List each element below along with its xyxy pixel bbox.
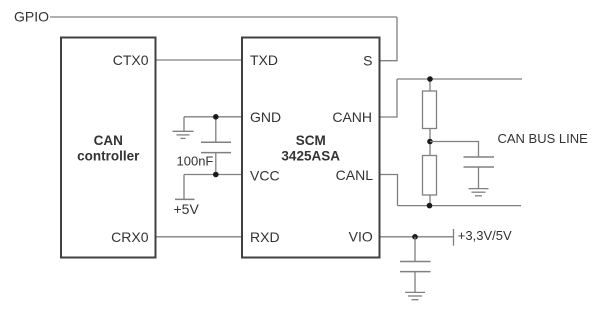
svg-text:CRX0: CRX0 <box>111 229 149 245</box>
wire CTX0 to TXD <box>156 59 243 61</box>
junction dot between resistors <box>427 139 433 145</box>
ground (GND pin) <box>173 117 194 139</box>
capacitor C3 (VIO decoupling) <box>400 237 431 293</box>
CAN controller box U1 <box>61 38 156 258</box>
junction dot GND <box>213 114 219 120</box>
svg-text:SCM: SCM <box>296 133 326 148</box>
svg-text:100nF: 100nF <box>177 153 214 168</box>
svg-text:3425ASA: 3425ASA <box>281 149 340 164</box>
wire GPIO down to S <box>380 17 398 61</box>
wire CANL bus line <box>398 205 522 207</box>
svg-text:RXD: RXD <box>250 229 280 245</box>
resistor R1 <box>423 91 437 129</box>
wire CRX0 to RXD <box>156 236 243 238</box>
ground (termination cap) <box>469 189 489 196</box>
wire CANH to bus <box>380 79 398 117</box>
svg-text:CAN: CAN <box>94 133 123 148</box>
svg-text:VCC: VCC <box>250 168 280 184</box>
svg-text:CTX0: CTX0 <box>113 52 149 68</box>
junction dot CANL bus <box>427 203 433 209</box>
wire through resistors <box>429 79 431 206</box>
capacitor C1 100nF <box>201 117 231 175</box>
resistor R2 <box>423 156 437 196</box>
svg-text:GPIO: GPIO <box>14 9 49 25</box>
svg-text:GND: GND <box>250 109 281 125</box>
wire CANH bus line <box>397 78 522 80</box>
transceiver box U2 SCM3425ASA <box>242 38 380 258</box>
junction dot CANH bus <box>427 76 433 82</box>
power +5V terminal <box>175 175 195 200</box>
svg-text:CANL: CANL <box>336 167 374 183</box>
svg-text:+3,3V/5V: +3,3V/5V <box>458 228 512 243</box>
ground (VIO cap) <box>405 292 425 299</box>
svg-text:+5V: +5V <box>174 201 200 217</box>
svg-text:S: S <box>363 53 372 69</box>
wire VIO to supply <box>380 236 454 238</box>
wire GND to left <box>184 116 242 118</box>
wire GPIO horizontal <box>50 16 397 18</box>
svg-text:TXD: TXD <box>250 52 278 68</box>
power +3,3V/5V terminal <box>453 229 455 246</box>
svg-text:CANH: CANH <box>332 109 372 125</box>
wire mid junction to split cap <box>430 142 479 158</box>
wire CANL to bus <box>380 175 398 206</box>
wire VCC to left <box>184 174 242 176</box>
junction dot VCC <box>213 172 219 178</box>
junction dot VIO <box>412 234 418 240</box>
svg-text:VIO: VIO <box>349 229 373 245</box>
svg-text:controller: controller <box>77 149 140 164</box>
capacitor C2 (split termination) <box>464 157 495 189</box>
svg-text:CAN BUS LINE: CAN BUS LINE <box>498 131 589 146</box>
